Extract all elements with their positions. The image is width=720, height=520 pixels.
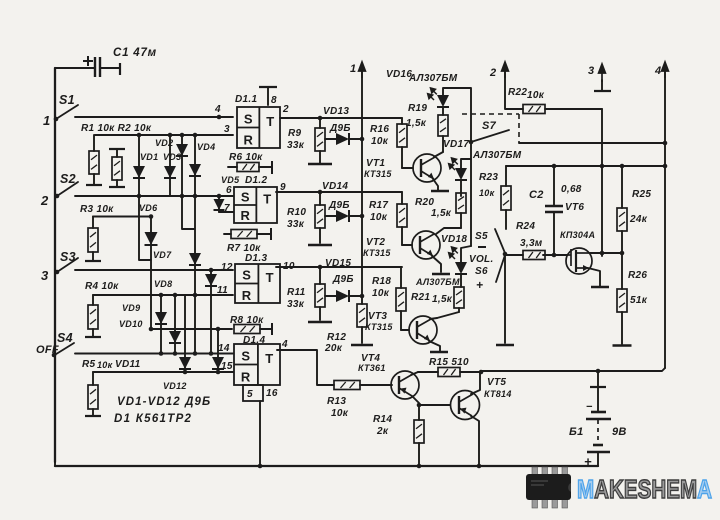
wire	[349, 138, 362, 140]
junction	[180, 194, 185, 199]
transistor VT2	[412, 231, 440, 259]
svg-text:C1 47м: C1 47м	[113, 47, 157, 59]
svg-text:2: 2	[40, 193, 49, 208]
resistor R4	[85, 295, 101, 337]
resistor R6	[228, 161, 272, 174]
junction	[183, 370, 188, 375]
wire VD18 top tap	[461, 246, 471, 262]
wire	[401, 192, 403, 204]
svg-text:VD9: VD9	[122, 303, 140, 313]
wire	[116, 149, 118, 157]
wire	[460, 180, 462, 196]
terminal bar R4	[85, 336, 101, 338]
transistor VT1	[413, 154, 441, 182]
svg-text:R9: R9	[288, 128, 302, 139]
junction	[173, 293, 178, 298]
svg-text:R15 510: R15 510	[429, 357, 469, 368]
resistor R2 body	[112, 157, 122, 180]
wire matrix v6	[210, 270, 212, 354]
wire	[505, 210, 507, 229]
net 2 arrow	[502, 62, 509, 78]
pin 8 bar	[259, 86, 277, 88]
transistor VT3	[409, 316, 437, 344]
wire	[259, 401, 261, 466]
wire to pin7	[219, 211, 233, 213]
wire	[349, 295, 362, 297]
svg-text:C2: C2	[529, 189, 544, 201]
wire	[319, 228, 321, 243]
svg-text:R11: R11	[287, 287, 306, 298]
resistor R24 body	[523, 251, 545, 260]
wire row R8	[150, 328, 232, 330]
wire VD16 top to S7 supply line	[443, 88, 471, 246]
wire wiper down	[504, 254, 506, 343]
svg-text:Д9Б: Д9Б	[329, 123, 351, 134]
svg-text:5: 5	[247, 389, 253, 400]
junction	[180, 133, 185, 138]
svg-text:0,68: 0,68	[561, 184, 582, 195]
wire	[621, 166, 623, 208]
svg-text:R21: R21	[411, 292, 430, 303]
rays VD18	[445, 245, 461, 261]
svg-text:10к: 10к	[479, 188, 495, 198]
wire	[349, 215, 362, 217]
svg-text:7: 7	[224, 203, 230, 214]
diode matrix	[205, 274, 217, 286]
resistor R15	[418, 368, 481, 377]
svg-text:D1.3: D1.3	[245, 253, 267, 264]
wire	[325, 215, 337, 217]
junction net4 rail2	[663, 164, 668, 169]
junction R11	[318, 265, 323, 270]
diode VD3	[164, 166, 176, 178]
svg-text:R20: R20	[415, 197, 434, 208]
resistor R14 body	[414, 420, 424, 443]
resistor R3	[85, 217, 101, 262]
switch S1	[56, 105, 78, 119]
svg-text:Д9Б: Д9Б	[332, 274, 354, 285]
wire	[257, 233, 271, 235]
terminal bar R5	[85, 415, 101, 417]
svg-text:24к: 24к	[629, 214, 648, 225]
svg-text:1,5к: 1,5к	[431, 208, 452, 219]
wire matrix v3	[181, 135, 183, 196]
wire	[545, 254, 567, 256]
svg-text:S7: S7	[482, 120, 497, 132]
wire	[361, 327, 363, 343]
wire	[460, 274, 462, 287]
resistor R7	[224, 228, 271, 240]
junction	[193, 194, 198, 199]
wire	[418, 443, 420, 466]
svg-text:4: 4	[281, 339, 288, 350]
wire VT6 drain	[590, 252, 602, 254]
junction	[149, 327, 154, 332]
wire	[319, 151, 321, 163]
wire row to D1.3 R input	[93, 294, 233, 296]
svg-text:S1: S1	[59, 93, 75, 107]
svg-text:R7 10к: R7 10к	[227, 243, 261, 254]
wire row D1.1 output	[280, 117, 402, 119]
resistor R8	[234, 323, 272, 335]
svg-text:R4 10к: R4 10к	[85, 281, 119, 292]
svg-text:12: 12	[221, 262, 233, 273]
wire R21 to VT3 collector	[437, 312, 459, 318]
battery B1	[586, 371, 611, 466]
resistor R23	[501, 166, 511, 229]
wire R22 corner down	[601, 109, 603, 256]
svg-text:T: T	[265, 351, 273, 366]
diode VD15 symbol	[336, 290, 349, 302]
diode VD14 symbol	[336, 210, 349, 222]
resistor R14	[414, 405, 424, 466]
capacitor C2	[545, 166, 563, 255]
svg-text:S: S	[242, 268, 251, 283]
wire	[319, 307, 321, 320]
ground VT6	[591, 286, 609, 289]
resistor R5 body	[88, 385, 98, 409]
LED VD18	[455, 262, 467, 274]
svg-text:VD6: VD6	[139, 203, 158, 213]
svg-text:КТ315: КТ315	[363, 248, 391, 258]
wire	[319, 192, 321, 205]
resistor R7 body	[231, 230, 257, 239]
svg-text:VD4: VD4	[197, 142, 215, 152]
resistor R11	[315, 267, 325, 320]
svg-text:3,3м: 3,3м	[520, 238, 543, 249]
diode VD15	[325, 290, 362, 302]
wire VT1 collector	[434, 152, 443, 157]
svg-text:R6 10к: R6 10к	[229, 152, 263, 163]
svg-text:1,5к: 1,5к	[432, 294, 453, 305]
svg-text:10к: 10к	[372, 288, 390, 299]
logo chip icon	[526, 467, 571, 508]
switch S5	[495, 229, 505, 253]
resistor R6 body	[237, 163, 259, 172]
svg-text:VD12: VD12	[163, 381, 187, 391]
diode VD2	[176, 144, 188, 156]
switch S2	[57, 182, 78, 196]
resistor R25 body	[617, 208, 627, 231]
svg-text:VT2: VT2	[366, 237, 385, 248]
svg-text:VD14: VD14	[322, 181, 348, 192]
transistor VT6	[566, 248, 592, 274]
wire	[401, 147, 403, 168]
svg-text:R12: R12	[327, 332, 346, 343]
wire	[319, 267, 321, 284]
net 1 arrow	[359, 62, 366, 78]
wire VT3 emitter	[429, 341, 440, 351]
svg-text:КТ315: КТ315	[365, 322, 393, 332]
resistor R19 body	[438, 115, 448, 136]
resistor R23 body	[501, 186, 511, 210]
svg-text:2: 2	[489, 67, 496, 79]
ground VT3	[430, 351, 448, 354]
resistor R15 body	[438, 368, 460, 377]
net 3 bar	[594, 90, 611, 92]
resistor R13	[334, 381, 392, 390]
junction VD14 bus	[360, 214, 365, 219]
wire VD5	[218, 196, 220, 212]
resistor R9	[315, 118, 325, 163]
svg-text:VD1: VD1	[140, 152, 158, 162]
svg-text:КТ361: КТ361	[358, 363, 386, 373]
svg-text:MAKESHEMA: MAKESHEMA	[577, 474, 712, 504]
resistor R4 body	[88, 305, 98, 329]
svg-text:R22: R22	[508, 87, 527, 98]
rays VD17	[445, 156, 461, 172]
wire	[505, 166, 507, 186]
svg-text:S5: S5	[475, 231, 488, 242]
svg-text:R3 10к: R3 10к	[80, 204, 114, 215]
svg-text:R16: R16	[370, 124, 389, 135]
wire matrix v9	[184, 295, 186, 372]
resistor R26	[617, 253, 627, 344]
svg-text:S2: S2	[60, 172, 76, 186]
resistor R16	[397, 118, 407, 168]
svg-text:11: 11	[217, 285, 228, 296]
junction VT5 rail	[477, 464, 482, 469]
resistor R21	[454, 287, 464, 312]
wire bottom rail	[55, 465, 598, 467]
svg-text:20к: 20к	[324, 343, 343, 354]
diode VD10	[169, 331, 181, 343]
junction S3 pivot	[55, 270, 60, 275]
switch S6	[496, 255, 505, 282]
diode VD1	[133, 166, 145, 178]
diode VD13	[325, 133, 362, 145]
svg-text:R19: R19	[408, 103, 427, 114]
wire matrix v5	[150, 217, 152, 330]
terminal bar R1	[86, 184, 102, 186]
svg-text:R10: R10	[287, 207, 306, 218]
svg-text:2к: 2к	[376, 426, 389, 437]
svg-text:R24: R24	[516, 221, 535, 232]
transistor VT4	[391, 371, 419, 399]
resistor R19	[438, 115, 448, 152]
wire VT5 collector	[471, 372, 480, 394]
wire row to D1.1 R input	[95, 134, 233, 136]
wire R17 to VT2 base	[402, 244, 412, 246]
svg-text:R: R	[243, 133, 253, 148]
wire	[401, 227, 403, 245]
resistor R9 body	[315, 128, 325, 151]
junction net4 row	[663, 141, 668, 146]
junction C2 top	[552, 164, 557, 169]
wire net1 bus	[361, 70, 363, 304]
junction	[193, 133, 198, 138]
junction	[159, 293, 164, 298]
wire	[442, 136, 444, 152]
wire	[360, 384, 392, 386]
svg-text:S: S	[244, 111, 253, 126]
resistor R18	[396, 267, 406, 330]
resistor R20	[456, 193, 466, 228]
wire VT6 source	[588, 268, 600, 286]
svg-text:10к: 10к	[527, 90, 545, 101]
svg-text:33к: 33к	[287, 140, 305, 151]
svg-text:51к: 51к	[630, 295, 648, 306]
tick R7	[270, 228, 272, 240]
net 3 arrow	[599, 64, 606, 82]
junction C2 gate	[552, 253, 557, 258]
svg-text:10к: 10к	[331, 408, 349, 419]
wire	[400, 311, 402, 330]
svg-text:R14: R14	[373, 414, 392, 425]
wire row S1 to D1.1 S input	[75, 116, 233, 118]
diode VD9	[155, 312, 167, 324]
svg-text:15: 15	[221, 361, 233, 372]
wire VT5 emitter	[471, 416, 479, 466]
junction	[258, 464, 263, 469]
junction VT4 emitter	[417, 403, 422, 408]
wire R16 to VT1 base	[402, 167, 413, 169]
resistor R21 body	[454, 287, 464, 308]
LED VD17	[455, 168, 467, 180]
tick R8	[271, 323, 273, 335]
wire net2 to R22	[505, 70, 523, 109]
wire	[116, 180, 118, 187]
svg-text:КТ814: КТ814	[484, 389, 512, 399]
wire	[621, 312, 623, 344]
svg-text:R26: R26	[628, 270, 647, 281]
wire row R3	[93, 216, 150, 218]
resistor R2	[109, 149, 125, 187]
wire	[325, 295, 337, 297]
wire matrix v10	[217, 329, 219, 372]
ground VT2	[432, 273, 450, 276]
wire to VT5 base	[419, 404, 450, 406]
svg-text:R17: R17	[369, 200, 388, 211]
wire pin8	[267, 88, 269, 105]
wire	[92, 217, 94, 229]
resistor R12	[357, 304, 367, 343]
wire net4 vertical	[664, 70, 666, 368]
wire matrix v8	[174, 295, 176, 354]
resistor R22 body	[523, 105, 545, 114]
resistor R8 body	[234, 325, 260, 334]
svg-text:VD17: VD17	[443, 139, 469, 150]
wire	[92, 295, 94, 305]
svg-text:1,5к: 1,5к	[406, 118, 427, 129]
flip-flop D1.3	[235, 264, 280, 303]
wire	[93, 135, 95, 151]
wire row S3 to D1.3 S input	[75, 269, 233, 271]
ground R9	[308, 163, 332, 166]
resistor R11 body	[315, 284, 325, 307]
svg-text:D1 К561ТР2: D1 К561ТР2	[114, 413, 192, 425]
svg-text:VD5: VD5	[221, 175, 240, 185]
diode VD5	[214, 199, 225, 210]
svg-text:АЛ307БМ: АЛ307БМ	[415, 277, 460, 287]
junction pin4	[217, 115, 222, 120]
svg-text:VT5: VT5	[487, 377, 506, 388]
svg-text:3: 3	[224, 124, 230, 135]
junction	[209, 351, 214, 356]
junction VD15 bus	[360, 294, 365, 299]
diode VD14	[325, 210, 362, 222]
svg-text:VD10: VD10	[119, 319, 143, 329]
resistor R22	[523, 105, 602, 114]
wire	[401, 118, 403, 124]
resistor R12 body	[357, 304, 367, 327]
wire rail R15 net4	[481, 368, 665, 371]
terminal bar R3	[85, 260, 101, 262]
svg-text:T: T	[266, 270, 274, 285]
svg-text:VD7: VD7	[153, 250, 172, 260]
wire VT4 collector	[411, 372, 418, 375]
resistor R10 body	[315, 205, 325, 228]
wire row D1.3 output	[276, 266, 402, 268]
resistor R17	[397, 192, 407, 245]
svg-text:10к: 10к	[97, 360, 113, 370]
svg-text:R1 10к R2 10к: R1 10к R2 10к	[81, 123, 152, 134]
svg-text:VD13: VD13	[323, 106, 349, 117]
svg-text:Д9Б: Д9Б	[328, 200, 350, 211]
svg-text:9В: 9В	[612, 426, 627, 438]
wire	[505, 254, 523, 256]
wire	[325, 138, 337, 140]
flip-flop D1.2	[234, 187, 277, 223]
switch S3	[57, 258, 78, 272]
tick R6	[271, 161, 273, 174]
wire gate	[543, 254, 567, 256]
wire drain to R25	[602, 252, 622, 254]
wire	[260, 328, 272, 330]
wire	[93, 174, 95, 184]
ground R12	[351, 344, 373, 347]
resistor R20 body	[456, 193, 466, 213]
svg-text:16: 16	[266, 388, 278, 399]
junction	[217, 194, 222, 199]
LED VD16	[437, 95, 449, 107]
wire left bus	[54, 68, 56, 462]
resistor R10	[315, 192, 325, 243]
wire matrix v3 lower	[182, 196, 194, 229]
wire	[418, 405, 420, 420]
svg-text:R23: R23	[479, 172, 498, 183]
diode VD7	[145, 232, 158, 245]
transistor VT5	[451, 391, 480, 420]
svg-text:−: −	[586, 401, 593, 413]
wire matrix v1	[138, 135, 140, 196]
resistor R1 body	[89, 151, 99, 174]
wire	[553, 166, 555, 205]
switch S7	[471, 130, 509, 142]
junction R15 VT5	[479, 370, 484, 375]
wire	[597, 387, 599, 411]
diode VD4	[189, 164, 201, 176]
svg-text:3: 3	[588, 65, 594, 77]
wire D1.4 output to R13	[277, 350, 334, 385]
junction drain	[600, 251, 605, 256]
wire VT2 emitter	[432, 256, 441, 272]
resistor R3 body	[88, 228, 98, 252]
wire VT1 emitter	[433, 179, 438, 190]
svg-text:VD15: VD15	[325, 258, 351, 269]
junction	[159, 351, 164, 356]
dashed link S7 v	[518, 114, 520, 143]
junction drain rail	[600, 164, 605, 169]
wire audio top rail	[506, 165, 665, 167]
junction S7 contact	[469, 140, 474, 145]
pin 5 box	[243, 385, 263, 401]
svg-text:VD11: VD11	[115, 359, 141, 370]
wire	[92, 409, 94, 416]
svg-text:S: S	[241, 189, 250, 204]
svg-text:33к: 33к	[287, 299, 305, 310]
wire VD17 top tap	[461, 159, 471, 168]
